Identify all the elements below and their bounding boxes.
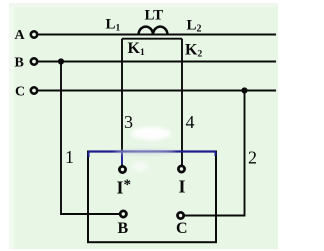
scan artifact smudges: [114, 127, 176, 172]
svg-text:1: 1: [65, 147, 74, 167]
svg-text:3: 3: [124, 112, 133, 132]
svg-text:A: A: [15, 28, 26, 43]
wattmeter box top edge (blue ink): [89, 150, 216, 152]
wire 1 (B line to wattmeter voltage terminal B): [61, 62, 120, 215]
terminal I: [178, 166, 184, 172]
wire phase B: [38, 61, 276, 63]
junction on B line: [58, 58, 64, 64]
current transformer LT secondary winding: [122, 38, 182, 40]
svg-text:C: C: [176, 220, 188, 237]
terminal I*: [119, 166, 125, 172]
svg-text:B: B: [15, 56, 24, 71]
svg-text:4: 4: [186, 112, 195, 132]
wire 2 (C line to wattmeter voltage terminal C): [184, 91, 244, 216]
terminal C: [31, 87, 37, 93]
svg-text:I: I: [117, 178, 124, 198]
junction on C line: [241, 87, 247, 93]
wattmeter box: [88, 152, 216, 243]
svg-text:C: C: [15, 85, 25, 100]
svg-text:B: B: [118, 220, 129, 237]
wire phase C: [38, 90, 276, 92]
terminal B (wattmeter): [120, 211, 126, 217]
svg-text:*: *: [124, 177, 132, 193]
terminal A: [31, 31, 37, 37]
current transformer LT primary winding: [139, 27, 168, 35]
svg-text:2: 2: [248, 148, 257, 168]
svg-text:I: I: [179, 177, 186, 197]
wire 3 (K1 to I*): [121, 39, 123, 166]
terminal C (wattmeter): [178, 212, 184, 218]
svg-text:LT: LT: [145, 8, 164, 24]
wire 4 (K2 to I): [181, 39, 183, 166]
terminal B: [31, 58, 37, 64]
wire phase A: [38, 34, 276, 36]
